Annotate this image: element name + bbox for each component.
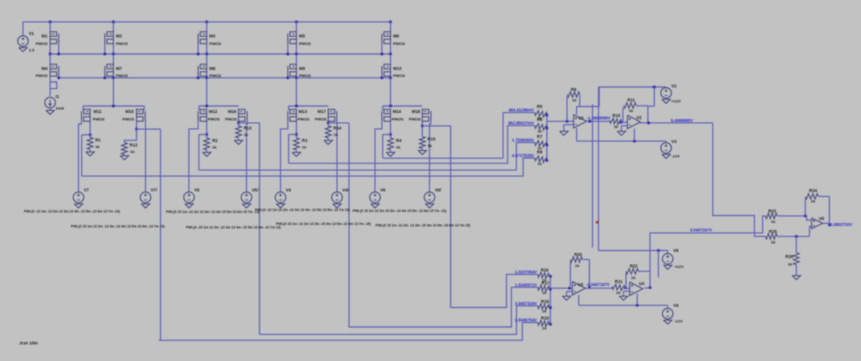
svg-text:464.41186mV: 464.41186mV [509, 107, 535, 112]
svg-text:1k: 1k [542, 290, 547, 295]
svg-text:1k: 1k [302, 144, 307, 149]
svg-text:R5: R5 [537, 104, 543, 109]
svg-text:1k: 1k [130, 149, 135, 154]
svg-text:PMOS: PMOS [36, 73, 48, 78]
svg-text:R17: R17 [542, 281, 550, 286]
svg-text:PMOS: PMOS [122, 117, 134, 122]
svg-text:V7/: V7/ [151, 188, 158, 193]
svg-text:M9: M9 [299, 66, 306, 71]
svg-text:M11: M11 [94, 109, 103, 114]
svg-text:1k: 1k [616, 290, 621, 295]
svg-text:1k: 1k [771, 219, 776, 224]
svg-text:R10: R10 [613, 113, 621, 118]
svg-text:PMOS: PMOS [93, 117, 105, 122]
svg-text:M8: M8 [209, 66, 216, 71]
svg-text:V8: V8 [673, 248, 679, 253]
svg-text:M17: M17 [318, 109, 327, 114]
svg-text:PMOS: PMOS [116, 73, 128, 78]
svg-text:M18: M18 [412, 109, 421, 114]
svg-text:R16: R16 [541, 268, 549, 273]
svg-text:+12V: +12V [671, 98, 681, 103]
svg-text:PMOS: PMOS [116, 41, 128, 46]
svg-text:R18: R18 [541, 299, 549, 304]
svg-text:1.0240971V: 1.0240971V [515, 283, 537, 288]
svg-text:M6: M6 [393, 34, 400, 39]
svg-text:1k: 1k [537, 129, 542, 134]
svg-text:1.5045754V: 1.5045754V [515, 318, 537, 323]
svg-text:1k: 1k [542, 325, 547, 330]
svg-text:V2: V2 [671, 83, 677, 88]
svg-text:962.85027mV: 962.85027mV [508, 120, 534, 125]
svg-text:3.0407319V: 3.0407319V [515, 301, 537, 306]
svg-text:R11: R11 [627, 98, 635, 103]
svg-text:PMOS: PMOS [36, 41, 48, 46]
svg-text:1.0237054V: 1.0237054V [515, 270, 537, 275]
svg-text:U1: U1 [579, 116, 585, 121]
svg-text:1k: 1k [575, 263, 580, 268]
svg-text:M4: M4 [42, 66, 49, 71]
svg-text:PMOS: PMOS [298, 117, 310, 122]
svg-text:I1: I1 [56, 94, 60, 99]
svg-text:1.7549394V: 1.7549394V [512, 137, 534, 142]
svg-text:1k: 1k [212, 144, 217, 149]
svg-text:1.5: 1.5 [29, 48, 35, 53]
svg-text:PWL(0 15 1m -13 2m -13 3m -15: PWL(0 15 1m -13 2m -13 3m -15 4m 13 5m -… [376, 223, 471, 227]
svg-text:R26: R26 [785, 254, 793, 259]
svg-text:R14: R14 [333, 125, 341, 130]
svg-text:1k: 1k [542, 309, 547, 314]
svg-text:-12V: -12V [674, 319, 683, 324]
svg-text:R9: R9 [571, 87, 577, 92]
svg-text:4.6727529V: 4.6727529V [512, 153, 534, 158]
svg-text:V5: V5 [194, 188, 200, 193]
svg-text:PMOS: PMOS [209, 73, 221, 78]
svg-text:1k: 1k [629, 108, 634, 113]
svg-text:M5: M5 [299, 34, 306, 39]
svg-text:PWL(0 -13 1m -13 2m 13 3m 13 4: PWL(0 -13 1m -13 2m 13 3m 13 4m -13 5m -… [24, 209, 120, 213]
svg-text:PWL(0 15 1m 13 2m -13 3m -13 4: PWL(0 15 1m 13 2m -13 3m -13 4m 13 5m 15… [71, 224, 165, 228]
svg-text:PMOS: PMOS [208, 117, 220, 122]
svg-text:3.0407167V: 3.0407167V [690, 227, 712, 232]
svg-text:1k: 1k [631, 275, 636, 280]
svg-text:R6: R6 [537, 117, 543, 122]
svg-text:PMOS: PMOS [409, 117, 421, 122]
svg-text:PWL(0 15 1m -13 2m 13 3m -15 4: PWL(0 15 1m -13 2m 13 3m -15 4m 13 5m -1… [276, 222, 371, 226]
svg-text:1k: 1k [537, 161, 542, 166]
svg-text:1k: 1k [811, 199, 816, 204]
svg-text:M7: M7 [116, 66, 123, 71]
svg-text:R3: R3 [302, 138, 308, 143]
svg-text:PMOS: PMOS [392, 117, 404, 122]
svg-text:PMOS: PMOS [225, 117, 237, 122]
svg-text:R13: R13 [244, 125, 252, 130]
svg-text:V5/: V5/ [252, 188, 259, 193]
svg-text:V6/: V6/ [435, 188, 442, 193]
svg-text:1k: 1k [396, 144, 401, 149]
svg-text:U4: U4 [639, 281, 645, 286]
svg-text:1k: 1k [428, 143, 433, 148]
svg-text:U5: U5 [819, 216, 825, 221]
svg-text:R24: R24 [809, 188, 817, 193]
svg-text:V9: V9 [673, 303, 679, 308]
svg-text:PMOS: PMOS [393, 41, 405, 46]
svg-text:2.4502702V: 2.4502702V [830, 222, 852, 227]
svg-text:R22: R22 [630, 264, 638, 269]
svg-text:1k: 1k [788, 262, 793, 267]
svg-text:PMOS: PMOS [315, 117, 327, 122]
svg-text:-3.0407167V: -3.0407167V [586, 282, 610, 287]
svg-text:M2: M2 [116, 34, 123, 39]
svg-text:1k: 1k [572, 97, 577, 102]
svg-text:.tran 10m: .tran 10m [19, 341, 38, 346]
svg-text:1mA: 1mA [56, 106, 65, 111]
svg-text:PMOS: PMOS [299, 41, 311, 46]
svg-text:V4/: V4/ [342, 188, 349, 193]
svg-text:R12: R12 [130, 143, 138, 148]
svg-text:M1: M1 [42, 34, 49, 39]
svg-text:1k: 1k [614, 124, 619, 129]
svg-text:R8: R8 [537, 150, 543, 155]
svg-text:M10: M10 [393, 66, 402, 71]
svg-text:PWL(0 -13 1m 13 2m -13 3m 13 4: PWL(0 -13 1m 13 2m -13 3m 13 4m -13 5m 1… [255, 208, 350, 212]
svg-text:R19: R19 [541, 316, 549, 321]
svg-text:R25: R25 [769, 229, 777, 234]
svg-text:R4: R4 [396, 138, 402, 143]
svg-text:U3: U3 [578, 282, 584, 287]
svg-text:M16: M16 [228, 109, 237, 114]
svg-text:V7: V7 [84, 188, 90, 193]
svg-text:M3: M3 [209, 34, 216, 39]
svg-text:V6: V6 [380, 188, 386, 193]
svg-text:M14: M14 [393, 109, 402, 114]
svg-text:U2: U2 [636, 115, 642, 120]
svg-text:V3: V3 [671, 139, 677, 144]
svg-text:1k: 1k [95, 144, 100, 149]
svg-text:PMOS: PMOS [209, 41, 221, 46]
svg-text:-12V: -12V [671, 154, 680, 159]
svg-text:R1: R1 [95, 138, 101, 143]
svg-text:R20: R20 [574, 252, 582, 257]
svg-text:R2: R2 [212, 138, 218, 143]
svg-text:V4: V4 [286, 188, 292, 193]
svg-text:+12V: +12V [674, 264, 684, 269]
svg-text:PWL(0 15 1m 13 2m 15 3m -13 4m: PWL(0 15 1m 13 2m 15 3m -13 4m 15 5m -13… [353, 209, 447, 213]
svg-text:PWL(0 -15 1m 13 2m -13 3m 13 4: PWL(0 -15 1m 13 2m -13 3m 13 4m -15 5m 1… [186, 225, 281, 229]
svg-text:V1: V1 [29, 31, 35, 36]
svg-text:PMOS: PMOS [393, 73, 405, 78]
svg-text:5.4999885V: 5.4999885V [671, 118, 693, 123]
svg-text:1k: 1k [771, 239, 776, 244]
svg-text:M15: M15 [125, 109, 134, 114]
svg-text:R21: R21 [615, 279, 623, 284]
svg-text:M13: M13 [299, 109, 308, 114]
svg-text:1k: 1k [333, 132, 338, 137]
svg-text:1k: 1k [244, 132, 249, 137]
svg-text:R7: R7 [537, 134, 543, 139]
svg-text:PMOS: PMOS [299, 73, 311, 78]
svg-text:M12: M12 [209, 109, 218, 114]
svg-text:R23: R23 [768, 208, 776, 213]
svg-text:PWL(0 15 1m -13 2m 13 3m -13 4: PWL(0 15 1m -13 2m 13 3m -13 4m 15 5m 13… [166, 210, 260, 214]
svg-text:R15: R15 [428, 136, 436, 141]
